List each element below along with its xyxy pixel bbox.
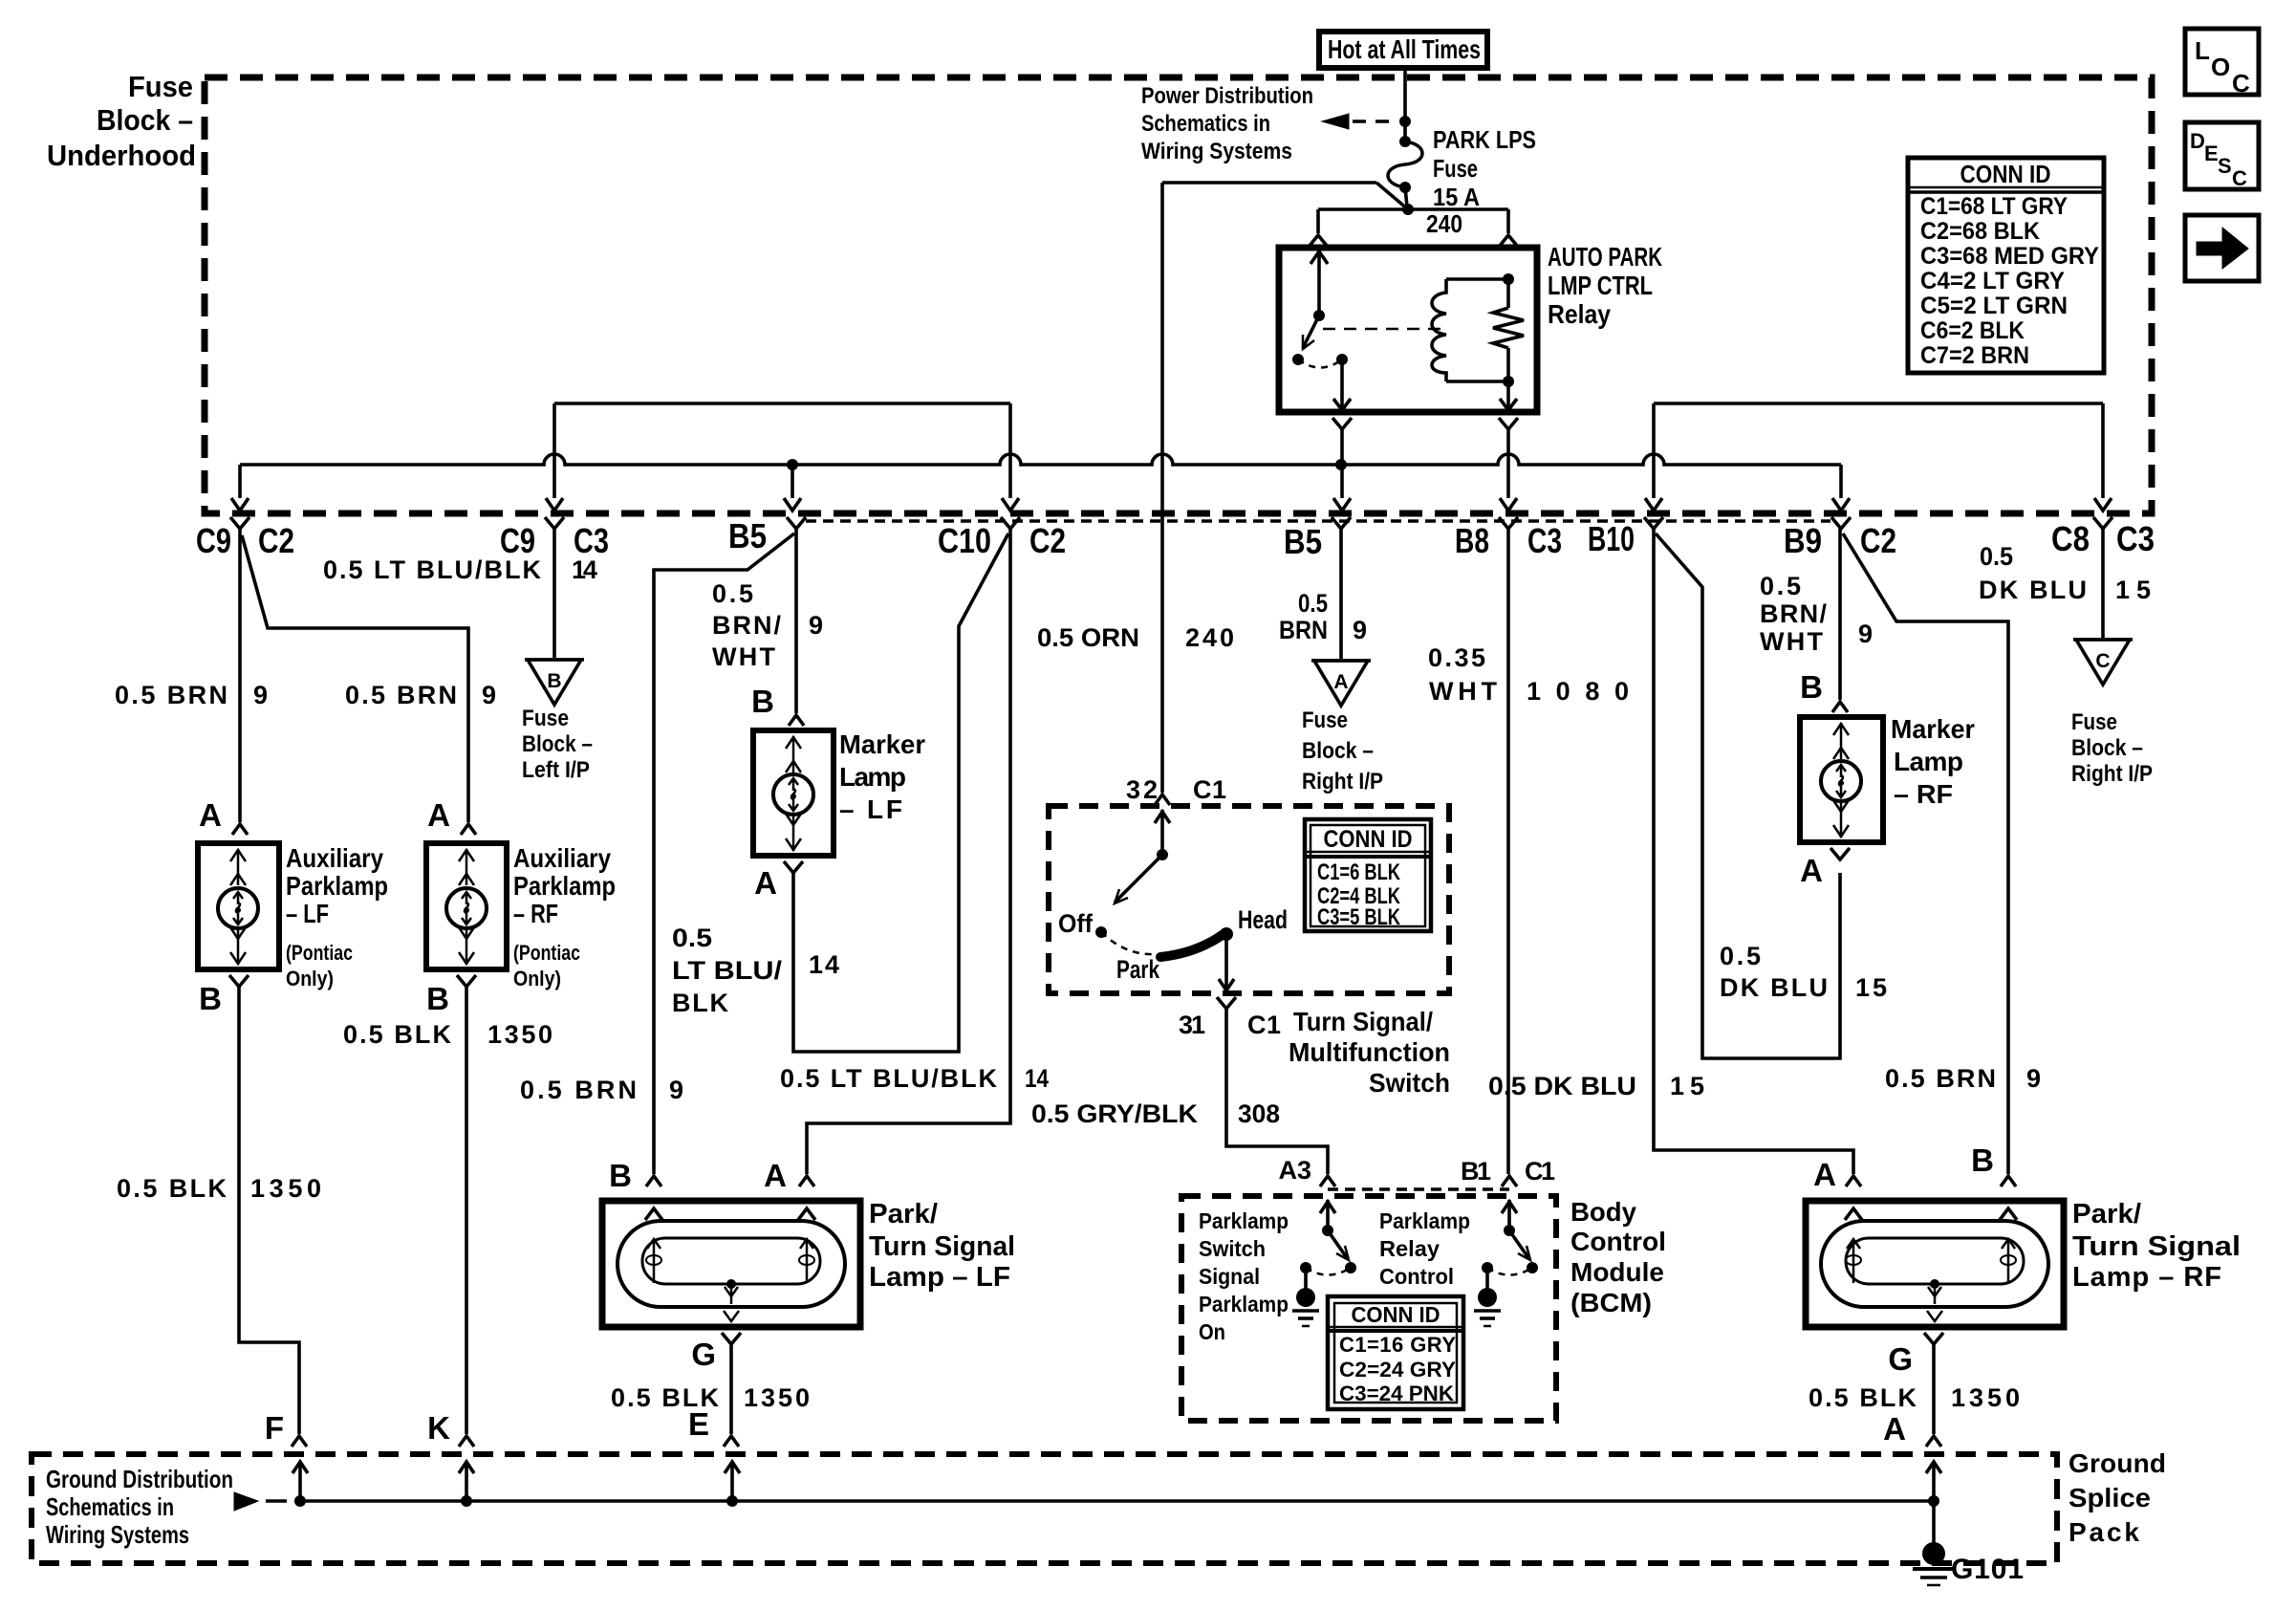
svg-text:Module: Module bbox=[1570, 1257, 1664, 1287]
svg-text:B: B bbox=[199, 981, 222, 1016]
svg-text:Head: Head bbox=[1238, 905, 1288, 934]
svg-text:Parklamp: Parklamp bbox=[1199, 1292, 1289, 1316]
svg-text:Block –: Block – bbox=[522, 731, 593, 757]
svg-text:Marker: Marker bbox=[1891, 714, 1975, 744]
svg-text:Fuse: Fuse bbox=[1302, 707, 1348, 733]
G101 ground symbol bbox=[1928, 1495, 1939, 1507]
svg-text:Control: Control bbox=[1379, 1264, 1454, 1289]
svg-text:F: F bbox=[265, 1410, 284, 1446]
svg-text:0.5 BRN: 0.5 BRN bbox=[345, 681, 457, 709]
svg-text:Ground Distribution: Ground Distribution bbox=[46, 1465, 233, 1493]
svg-text:A: A bbox=[754, 865, 777, 901]
connector B marker lamp RF above bbox=[1832, 702, 1848, 712]
auxiliary parklamp LF bulb bbox=[218, 888, 258, 928]
svg-text:DK BLU: DK BLU bbox=[1979, 576, 2087, 604]
junction node on hot feed bbox=[1399, 116, 1411, 127]
svg-text:Only): Only) bbox=[513, 967, 561, 990]
svg-text:C3=24 PNK: C3=24 PNK bbox=[1339, 1382, 1454, 1405]
wire 0.5 BLK 1350 from lamp LF to ground E bbox=[729, 1344, 733, 1434]
svg-text:Block –: Block – bbox=[97, 103, 193, 137]
svg-text:BLK: BLK bbox=[672, 989, 729, 1017]
dashed reference arrow to Power Distribution bbox=[1322, 114, 1349, 129]
park/turn signal lamp LF filaments bbox=[653, 1239, 656, 1283]
relay coil bbox=[1503, 273, 1514, 285]
wire 0.5 LT BLU/BLK 14 to fuse block left IP bbox=[552, 529, 556, 658]
svg-text:Schematics in: Schematics in bbox=[1141, 111, 1270, 137]
svg-text:On: On bbox=[1199, 1319, 1225, 1344]
park/turn signal lamp RF pin arrows bbox=[1845, 1208, 1862, 1220]
svg-text:Block –: Block – bbox=[2071, 735, 2143, 761]
turn signal multifunction switch dashed box bbox=[1049, 806, 1449, 993]
svg-text:L: L bbox=[2195, 36, 2210, 65]
svg-text:Right I/P: Right I/P bbox=[1302, 769, 1383, 794]
BCM input arrow bbox=[1326, 1200, 1330, 1230]
park/turn signal lamp LF outer filament loop bbox=[617, 1221, 845, 1307]
wire fuse block internal link B10-C8 bbox=[1654, 402, 2103, 405]
svg-text:Turn Signal: Turn Signal bbox=[869, 1231, 1015, 1262]
Hot at All Times power tag bbox=[1319, 32, 1487, 68]
ground bus riser E bbox=[726, 1495, 738, 1507]
svg-text:B10: B10 bbox=[1588, 519, 1635, 558]
svg-text:Relay: Relay bbox=[1548, 299, 1611, 329]
LOC navigation box bbox=[2185, 29, 2259, 95]
svg-text:Left I/P: Left I/P bbox=[522, 757, 590, 783]
svg-text:Auxiliary: Auxiliary bbox=[286, 843, 383, 873]
svg-text:C1: C1 bbox=[1247, 1011, 1281, 1039]
svg-text:Wiring Systems: Wiring Systems bbox=[46, 1520, 189, 1549]
svg-text:E: E bbox=[688, 1406, 709, 1442]
svg-text:B: B bbox=[1971, 1142, 1994, 1178]
svg-text:14: 14 bbox=[809, 950, 839, 979]
bus junction to B5 left bbox=[787, 459, 798, 470]
switch armature arrow to Off bbox=[1115, 855, 1162, 903]
marker lamp LF box bbox=[753, 730, 834, 856]
park/turn signal lamp RF filaments bbox=[1852, 1239, 1855, 1283]
wire into turn signal switch 32 C1 bbox=[1155, 794, 1170, 805]
svg-text:Underhood: Underhood bbox=[47, 139, 196, 172]
svg-text:A: A bbox=[1333, 671, 1348, 693]
svg-text:– LF: – LF bbox=[286, 899, 329, 928]
svg-text:C3: C3 bbox=[574, 521, 609, 560]
relay resistor bbox=[1506, 279, 1510, 308]
auxiliary parklamp LF pin arrows top bbox=[237, 849, 240, 885]
park/turn signal lamp RF inner filament loop bbox=[1846, 1238, 2024, 1284]
arrow navigation box bbox=[2185, 215, 2259, 281]
svg-text:Turn Signal: Turn Signal bbox=[2072, 1231, 2241, 1262]
svg-text:C3=68 MED GRY: C3=68 MED GRY bbox=[1920, 243, 2099, 270]
connector 31 C1 below switch bbox=[1217, 997, 1236, 1009]
wire branch from B10 to marker lamp RF A bbox=[1656, 533, 1840, 1058]
triangle A fuse block right IP bbox=[1314, 661, 1368, 706]
svg-text:14: 14 bbox=[572, 555, 597, 584]
wire from Hot at All Times down to fuse bbox=[1403, 68, 1407, 141]
svg-text:C2: C2 bbox=[258, 521, 294, 560]
park/turn signal lamp LF common ground node bbox=[726, 1279, 736, 1289]
svg-text:C9: C9 bbox=[196, 521, 231, 560]
svg-text:0.5 LT BLU/BLK: 0.5 LT BLU/BLK bbox=[780, 1064, 998, 1093]
svg-text:Turn Signal/: Turn Signal/ bbox=[1293, 1007, 1433, 1036]
wire 0.5 BRN 9 from B5 to fuse block right IP bbox=[1339, 529, 1343, 659]
svg-text:Auxiliary: Auxiliary bbox=[513, 843, 611, 873]
svg-text:Fuse: Fuse bbox=[1433, 154, 1478, 183]
wire branch from B5 to park/turn lamp LF B bbox=[654, 533, 794, 1174]
svg-text:Schematics in: Schematics in bbox=[46, 1492, 174, 1521]
svg-text:A: A bbox=[1800, 853, 1823, 888]
svg-text:C2=68 BLK: C2=68 BLK bbox=[1920, 218, 2040, 245]
connector B9/C2 at fuse block boundary bbox=[1831, 517, 1851, 529]
svg-text:G101: G101 bbox=[1951, 1554, 2024, 1585]
BCM input arrow bbox=[1507, 1200, 1511, 1230]
svg-text:Parklamp: Parklamp bbox=[1199, 1208, 1289, 1233]
svg-text:BRN: BRN bbox=[1279, 616, 1328, 644]
svg-text:O: O bbox=[2211, 53, 2230, 81]
svg-text:9: 9 bbox=[1858, 620, 1873, 648]
connector C9/C3 at fuse block boundary bbox=[545, 517, 564, 529]
svg-text:0.5: 0.5 bbox=[712, 579, 753, 608]
svg-text:0.5 LT BLU/BLK: 0.5 LT BLU/BLK bbox=[323, 555, 542, 584]
svg-text:9: 9 bbox=[482, 681, 496, 709]
svg-text:CONN ID: CONN ID bbox=[1960, 160, 2051, 188]
svg-text:Parklamp: Parklamp bbox=[286, 871, 388, 901]
connector G park/turn lamp LF bbox=[722, 1333, 741, 1344]
switch wiper thick arc to Head bbox=[1160, 934, 1224, 957]
svg-text:LMP CTRL: LMP CTRL bbox=[1548, 271, 1653, 300]
svg-text:– LF: – LF bbox=[839, 794, 902, 824]
svg-text:K: K bbox=[427, 1410, 450, 1446]
bus right drop to B9 C2 bbox=[1839, 465, 1843, 498]
wire horizontal branch to ORN drop bbox=[1162, 181, 1376, 185]
switch input arrow bbox=[1160, 810, 1164, 855]
svg-text:C3=5 BLK: C3=5 BLK bbox=[1317, 904, 1401, 930]
svg-text:0.5 BRN: 0.5 BRN bbox=[520, 1076, 637, 1104]
svg-text:240: 240 bbox=[1426, 209, 1462, 238]
auxiliary parklamp RF bulb bbox=[446, 888, 487, 928]
svg-text:Park: Park bbox=[1116, 955, 1160, 984]
svg-text:Switch: Switch bbox=[1369, 1068, 1450, 1098]
wire 0.5 BRN/WHT 9 from B9 to marker lamp RF B bbox=[1838, 529, 1842, 700]
BCM switch armature bbox=[1509, 1230, 1529, 1259]
svg-text:Lamp: Lamp bbox=[839, 762, 906, 792]
relay coil output pin bbox=[1506, 381, 1510, 409]
svg-text:C5=2 LT GRN: C5=2 LT GRN bbox=[1920, 293, 2068, 319]
svg-text:B: B bbox=[426, 981, 449, 1016]
svg-text:0.35: 0.35 bbox=[1428, 643, 1485, 672]
svg-text:0.5: 0.5 bbox=[1980, 542, 2013, 571]
ground bus reference arrow bbox=[234, 1492, 258, 1511]
marker lamp RF pin arrows bottom bbox=[1840, 801, 1843, 838]
svg-text:Signal: Signal bbox=[1199, 1264, 1260, 1289]
wire 0.35 WHT 1080 from B8 to BCM B1 bbox=[1506, 529, 1510, 1174]
svg-text:C6=2 BLK: C6=2 BLK bbox=[1920, 317, 2025, 344]
svg-text:0.5: 0.5 bbox=[1720, 942, 1761, 970]
ground bus riser F bbox=[294, 1495, 306, 1507]
svg-text:Splice: Splice bbox=[2069, 1483, 2151, 1512]
park/turn signal lamp RF box bbox=[1806, 1201, 2064, 1327]
svg-text:14: 14 bbox=[1025, 1064, 1049, 1093]
svg-text:B8: B8 bbox=[1455, 521, 1489, 560]
svg-text:C2: C2 bbox=[1860, 521, 1896, 560]
svg-text:A: A bbox=[1813, 1157, 1836, 1192]
switch Off contact bbox=[1095, 926, 1107, 938]
wire relay switched output to bus and B5 bbox=[1332, 418, 1352, 429]
fuse block inner connector dashed line bbox=[806, 519, 1830, 523]
svg-text:BRN/: BRN/ bbox=[1760, 599, 1827, 628]
bus left drop to C9 C2 bbox=[238, 465, 242, 498]
park/turn signal lamp LF box bbox=[602, 1201, 860, 1327]
wire 0.5 DK BLU 15 from C8 to fuse block right IP bbox=[2101, 529, 2105, 638]
auxiliary parklamp LF box bbox=[198, 843, 279, 969]
svg-text:31: 31 bbox=[1179, 1011, 1205, 1039]
svg-text:C9: C9 bbox=[500, 521, 535, 560]
svg-text:G: G bbox=[1888, 1341, 1913, 1377]
svg-text:0.5: 0.5 bbox=[1298, 589, 1328, 618]
connector B aux parklamp RF bbox=[457, 975, 476, 987]
svg-text:9: 9 bbox=[809, 611, 823, 640]
svg-text:WHT: WHT bbox=[712, 642, 776, 671]
svg-text:0.5 BLK: 0.5 BLK bbox=[1809, 1383, 1917, 1412]
wire 0.5 LT BLU/BLK 14 from C2 to park/turn lamp LF A bbox=[807, 529, 1010, 1174]
svg-text:C: C bbox=[2232, 69, 2250, 98]
svg-text:0.5 BLK: 0.5 BLK bbox=[117, 1174, 227, 1203]
svg-text:Multifunction: Multifunction bbox=[1289, 1037, 1450, 1067]
body control module dashed box bbox=[1181, 1196, 1556, 1421]
svg-text:0.5: 0.5 bbox=[672, 924, 712, 952]
svg-text:Right I/P: Right I/P bbox=[2071, 761, 2153, 787]
svg-text:308: 308 bbox=[1238, 1099, 1280, 1128]
wire 0.5 BRN 9 to auxiliary parklamp LF bbox=[238, 529, 242, 822]
svg-text:C1=16 GRY: C1=16 GRY bbox=[1339, 1333, 1456, 1357]
marker lamp RF pin arrows top bbox=[1840, 723, 1843, 759]
svg-text:B5: B5 bbox=[1284, 522, 1322, 561]
svg-text:(Pontiac: (Pontiac bbox=[513, 941, 580, 965]
relay switch armature arrow bbox=[1303, 315, 1319, 348]
svg-text:Off: Off bbox=[1058, 909, 1094, 938]
park/turn signal lamp RF outer filament loop bbox=[1821, 1221, 2048, 1307]
wire relay coil output to B8 connector bbox=[1499, 418, 1518, 429]
svg-text:C7=2 BRN: C7=2 BRN bbox=[1920, 342, 2029, 369]
svg-text:Relay: Relay bbox=[1379, 1236, 1440, 1261]
connector G park/turn lamp RF bbox=[1924, 1333, 1943, 1344]
svg-text:C1: C1 bbox=[1193, 775, 1226, 804]
relay AUTO PARK LMP CTRL box bbox=[1279, 248, 1537, 412]
marker lamp LF pin arrows bottom bbox=[792, 815, 795, 851]
wire 0.5 BLK 1350 from aux RF to ground K bbox=[465, 987, 468, 1434]
relay pin feed left connector bbox=[1316, 209, 1320, 233]
svg-text:DK BLU: DK BLU bbox=[1720, 973, 1828, 1002]
svg-text:Wiring Systems: Wiring Systems bbox=[1141, 139, 1292, 164]
ground bus wire bbox=[294, 1499, 1934, 1503]
marker lamp LF pin arrows top bbox=[792, 736, 795, 772]
fuse block underhood dashed boundary box bbox=[205, 77, 2152, 513]
triangle C fuse block right IP bbox=[2076, 640, 2130, 685]
connector B5 at fuse block boundary bbox=[1332, 517, 1351, 529]
svg-text:C2: C2 bbox=[1029, 521, 1066, 560]
svg-text:C10: C10 bbox=[938, 521, 991, 560]
svg-text:Block –: Block – bbox=[1302, 738, 1374, 764]
svg-text:15 A: 15 A bbox=[1433, 183, 1480, 211]
svg-text:Park/: Park/ bbox=[2072, 1199, 2141, 1229]
connector C8/C3 at fuse block boundary bbox=[2093, 517, 2112, 529]
wire 240 feed line bbox=[1318, 207, 1508, 211]
svg-text:Fuse: Fuse bbox=[2071, 709, 2117, 735]
svg-text:C: C bbox=[2095, 650, 2110, 672]
relay coil link dashed bbox=[1323, 328, 1441, 331]
svg-text:(Pontiac: (Pontiac bbox=[286, 941, 353, 965]
wire 0.5 GRY/BLK 308 from switch to BCM A3 bbox=[1226, 1009, 1328, 1174]
svg-text:0.5: 0.5 bbox=[1760, 572, 1801, 600]
CONN ID table of BCM bbox=[1328, 1296, 1463, 1409]
wire from B10 to park/turn lamp RF A bbox=[1654, 529, 1853, 1174]
svg-text:CONN ID: CONN ID bbox=[1324, 826, 1413, 853]
svg-text:0.5 BRN: 0.5 BRN bbox=[115, 681, 227, 709]
svg-text:PARK LPS: PARK LPS bbox=[1433, 125, 1536, 154]
svg-text:Park/: Park/ bbox=[869, 1199, 938, 1229]
connector A marker lamp RF below bbox=[1830, 848, 1850, 859]
svg-text:9: 9 bbox=[1353, 616, 1367, 644]
auxiliary parklamp RF box bbox=[426, 843, 507, 969]
wire 0.5 ORN 240 from fuse to switch bbox=[1160, 183, 1164, 793]
svg-text:(BCM): (BCM) bbox=[1570, 1288, 1652, 1317]
svg-text:Fuse: Fuse bbox=[522, 706, 569, 731]
svg-text:Lamp – LF: Lamp – LF bbox=[869, 1262, 1010, 1293]
switch Park dashed arc bbox=[1101, 932, 1157, 954]
svg-text:LT BLU/: LT BLU/ bbox=[672, 956, 783, 985]
relay switch contacts bbox=[1292, 354, 1304, 365]
svg-text:Ground: Ground bbox=[2069, 1448, 2166, 1478]
svg-text:– RF: – RF bbox=[513, 899, 558, 928]
fuse PARK LPS 15A symbol bbox=[1399, 136, 1411, 147]
svg-text:D: D bbox=[2190, 129, 2205, 153]
svg-text:B: B bbox=[547, 670, 561, 692]
junction node below fuse bbox=[1402, 204, 1414, 215]
svg-text:CONN ID: CONN ID bbox=[1352, 1302, 1440, 1327]
park/turn signal lamp LF pin arrows bbox=[645, 1208, 662, 1220]
relay switch common pin bbox=[1317, 250, 1321, 315]
svg-text:B9: B9 bbox=[1784, 521, 1822, 560]
triangle B fuse block left IP bbox=[528, 660, 581, 705]
auxiliary parklamp RF pin arrows bottom bbox=[466, 928, 468, 965]
svg-text:Lamp – RF: Lamp – RF bbox=[2072, 1262, 2221, 1293]
svg-text:0.5 GRY/BLK: 0.5 GRY/BLK bbox=[1031, 1099, 1199, 1128]
svg-text:G: G bbox=[691, 1337, 716, 1372]
BCM inner connector dashed line bbox=[1328, 1187, 1509, 1191]
svg-text:9: 9 bbox=[253, 681, 268, 709]
BCM switch contact and ground bbox=[1300, 1262, 1311, 1273]
switch Head contact bbox=[1220, 927, 1233, 941]
park/turn signal lamp LF inner filament loop bbox=[642, 1238, 820, 1284]
CONN ID table of turn signal switch bbox=[1305, 819, 1431, 931]
svg-text:WHT: WHT bbox=[1760, 627, 1824, 656]
svg-text:Power Distribution: Power Distribution bbox=[1141, 83, 1313, 109]
wire fuse block internal link C9-C10 bbox=[554, 402, 1010, 405]
connector B8/C3 at fuse block boundary bbox=[1499, 517, 1518, 529]
wire branch from C2 to park/turn lamp RF B bbox=[1843, 533, 2008, 1174]
ground distribution dashed box bbox=[32, 1454, 2057, 1563]
connector C9/C2 at fuse block boundary bbox=[230, 517, 249, 529]
connector B aux parklamp LF bbox=[229, 975, 249, 987]
svg-text:A: A bbox=[199, 797, 222, 833]
BCM switch contact and ground bbox=[1482, 1262, 1493, 1273]
marker lamp LF bulb bbox=[773, 774, 813, 815]
auxiliary parklamp LF pin arrows bottom bbox=[237, 928, 240, 965]
svg-text:Hot at All Times: Hot at All Times bbox=[1328, 34, 1481, 64]
svg-text:B1: B1 bbox=[1461, 1157, 1491, 1186]
svg-text:0.5 BLK: 0.5 BLK bbox=[343, 1020, 452, 1049]
svg-text:C1=6 BLK: C1=6 BLK bbox=[1317, 859, 1401, 885]
svg-text:C8: C8 bbox=[2051, 519, 2090, 558]
relay switched output wire bbox=[1340, 359, 1344, 409]
wire 0.5 BRN 9 to auxiliary parklamp RF bbox=[242, 535, 468, 822]
BCM switch armature bbox=[1328, 1230, 1348, 1259]
svg-text:0.5 BRN: 0.5 BRN bbox=[1885, 1064, 1996, 1093]
marker lamp RF box bbox=[1800, 717, 1883, 842]
connector C10/C2 at fuse block boundary bbox=[1001, 517, 1020, 529]
wire 0.5 LT BLU/BLK 14 from marker LF to C10 bbox=[793, 533, 1008, 1052]
svg-text:E: E bbox=[2204, 141, 2219, 165]
svg-text:BRN/: BRN/ bbox=[712, 611, 781, 640]
connector B10 at fuse block boundary bbox=[1644, 517, 1663, 529]
svg-text:B: B bbox=[609, 1158, 632, 1193]
svg-text:Body: Body bbox=[1570, 1197, 1636, 1227]
svg-text:Switch: Switch bbox=[1199, 1236, 1266, 1261]
wire 0.5 BRN/WHT 9 to marker lamp LF bbox=[794, 529, 798, 713]
svg-text:Parklamp: Parklamp bbox=[513, 871, 616, 901]
connector B5 at fuse block boundary bbox=[787, 517, 806, 529]
svg-text:C1: C1 bbox=[1525, 1157, 1555, 1186]
svg-text:Lamp: Lamp bbox=[1894, 747, 1963, 776]
ground bus riser K bbox=[461, 1495, 472, 1507]
svg-text:A: A bbox=[1883, 1411, 1906, 1447]
svg-text:C1=68 LT GRY: C1=68 LT GRY bbox=[1920, 193, 2068, 220]
svg-text:C3: C3 bbox=[2116, 519, 2155, 558]
wire main park lamp feed bus bbox=[240, 454, 1841, 465]
svg-text:Marker: Marker bbox=[839, 729, 925, 759]
CONN ID table of fuse block underhood bbox=[1908, 158, 2104, 373]
svg-text:9: 9 bbox=[2026, 1064, 2041, 1093]
svg-text:C2=24 GRY: C2=24 GRY bbox=[1339, 1358, 1456, 1382]
svg-text:Fuse: Fuse bbox=[128, 70, 193, 103]
svg-text:AUTO PARK: AUTO PARK bbox=[1548, 242, 1662, 272]
wire 0.5 BLK 1350 from lamp RF to ground A bbox=[1932, 1344, 1936, 1434]
svg-text:A: A bbox=[427, 797, 450, 833]
auxiliary parklamp RF pin arrows top bbox=[466, 849, 468, 885]
svg-text:S: S bbox=[2218, 154, 2232, 178]
DESC navigation box bbox=[2185, 122, 2259, 189]
svg-text:B: B bbox=[751, 684, 774, 719]
svg-text:Parklamp: Parklamp bbox=[1379, 1208, 1470, 1233]
svg-text:C4=2 LT GRY: C4=2 LT GRY bbox=[1920, 268, 2065, 294]
svg-text:B5: B5 bbox=[728, 516, 767, 555]
svg-text:0.5 ORN: 0.5 ORN bbox=[1037, 623, 1139, 652]
switch output wire bbox=[1224, 934, 1228, 990]
svg-text:A3: A3 bbox=[1278, 1156, 1311, 1185]
relay pin feed right connector bbox=[1506, 209, 1510, 233]
wire 0.5 BLK 1350 from aux LF to ground F bbox=[239, 987, 299, 1434]
svg-text:WHT: WHT bbox=[1429, 677, 1498, 706]
marker lamp RF bulb bbox=[1821, 761, 1861, 801]
park/turn signal lamp RF common ground node bbox=[1930, 1279, 1939, 1289]
svg-text:0.5 DK BLU: 0.5 DK BLU bbox=[1488, 1072, 1636, 1100]
svg-text:240: 240 bbox=[1185, 623, 1234, 652]
svg-text:Only): Only) bbox=[286, 967, 334, 990]
svg-text:C: C bbox=[2232, 166, 2247, 190]
connector A marker lamp LF bbox=[784, 861, 803, 873]
svg-text:C3: C3 bbox=[1527, 521, 1562, 560]
svg-text:Control: Control bbox=[1570, 1227, 1666, 1256]
wire diagonal from fuse node to ORN branch bbox=[1376, 183, 1408, 209]
svg-text:9: 9 bbox=[669, 1076, 683, 1104]
svg-text:A: A bbox=[764, 1158, 787, 1193]
